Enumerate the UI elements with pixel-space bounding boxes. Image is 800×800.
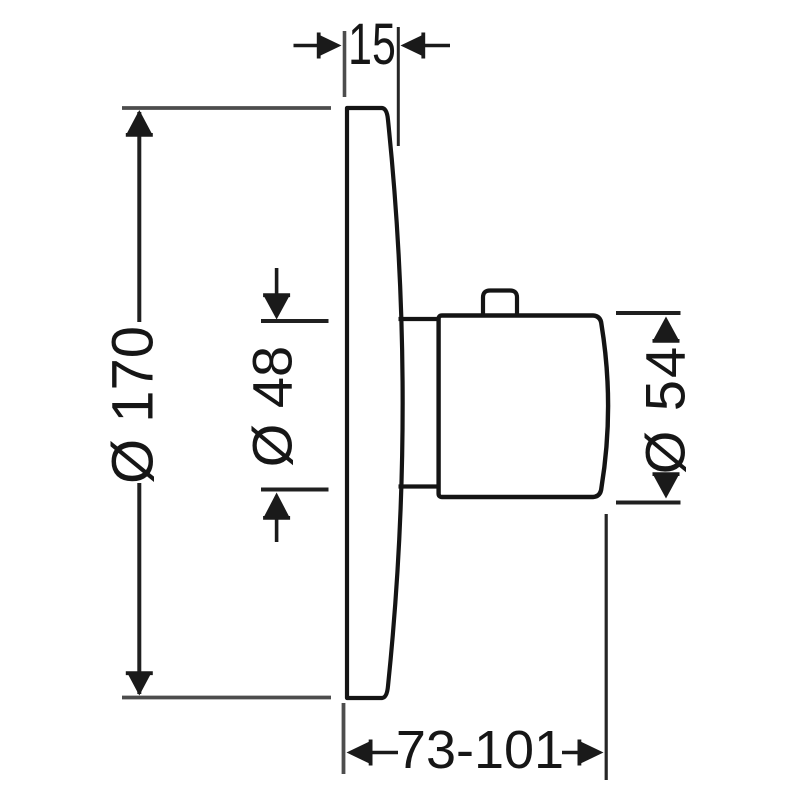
svg-text:Ø 54: Ø 54 bbox=[634, 345, 697, 474]
dim 73-101 left extension line bbox=[342, 703, 346, 774]
escutcheon plate outline bbox=[347, 108, 403, 698]
dim 15 right arrowhead bbox=[401, 34, 425, 57]
valve stem top edge bbox=[399, 317, 441, 321]
dim 15 right arrow shaft bbox=[423, 44, 450, 48]
dim 15 left arrowhead bbox=[318, 34, 342, 57]
handle knob bbox=[483, 291, 517, 318]
dim 48 top tick bbox=[261, 319, 329, 323]
svg-text:Ø 170: Ø 170 bbox=[101, 326, 166, 484]
dim 48 bottom arrowhead bbox=[264, 493, 289, 517]
dim 15 right extension line bbox=[397, 27, 400, 146]
svg-text:73-101: 73-101 bbox=[396, 720, 564, 780]
dim 73-101 right arrow shaft bbox=[562, 751, 580, 755]
svg-text:Ø 48: Ø 48 bbox=[241, 346, 304, 467]
dim 170 line upper segment bbox=[137, 112, 141, 322]
dim 73-101 left arrow shaft bbox=[370, 751, 398, 755]
svg-text:15: 15 bbox=[348, 12, 396, 77]
dim 170 top extension line bbox=[122, 106, 331, 110]
dim 48 top arrow shaft bbox=[275, 268, 279, 296]
dim 48 bottom tick bbox=[261, 488, 329, 492]
valve stem bottom edge bbox=[399, 484, 441, 488]
handle outline bbox=[439, 316, 608, 498]
dim 73-101 right arrowhead bbox=[580, 741, 604, 764]
dim 54 bottom arrowhead bbox=[654, 476, 679, 499]
dim 170 top arrowhead bbox=[127, 110, 152, 134]
dim 54 top arrowhead bbox=[654, 317, 679, 340]
dim 170 bottom arrowhead bbox=[127, 672, 152, 696]
dim 54 top tick bbox=[616, 311, 681, 315]
dim 54 bottom tick bbox=[616, 501, 681, 505]
dim 15 left extension line bbox=[343, 31, 347, 97]
dim 73-101 left arrowhead bbox=[347, 741, 371, 764]
dim 48 bottom arrow shaft bbox=[275, 517, 279, 542]
dim 170 line lower segment bbox=[137, 483, 141, 694]
dim 170 bottom extension line bbox=[122, 696, 331, 700]
dim 15 left arrow shaft bbox=[294, 44, 320, 48]
dim 73-101 right extension line bbox=[605, 514, 608, 780]
dim 48 top arrowhead bbox=[264, 297, 289, 320]
